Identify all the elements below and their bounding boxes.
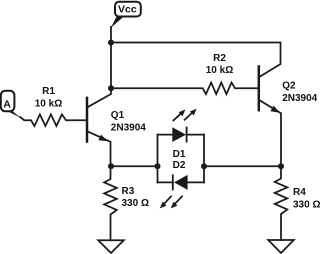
svg-text:10 kΩ: 10 kΩ: [206, 65, 233, 76]
svg-text:R4: R4: [293, 187, 306, 198]
svg-text:Q1: Q1: [111, 110, 125, 121]
svg-text:R3: R3: [122, 186, 135, 197]
svg-text:Vcc: Vcc: [118, 3, 137, 15]
svg-text:Q2: Q2: [282, 80, 296, 91]
svg-text:10 kΩ: 10 kΩ: [35, 99, 62, 110]
svg-text:R1: R1: [42, 86, 55, 97]
svg-text:330 Ω: 330 Ω: [293, 200, 320, 211]
svg-text:A: A: [3, 98, 11, 110]
svg-text:2N3904: 2N3904: [111, 123, 146, 134]
svg-text:330 Ω: 330 Ω: [122, 198, 149, 209]
svg-text:D1: D1: [173, 149, 186, 160]
svg-text:D2: D2: [173, 160, 186, 171]
svg-text:2N3904: 2N3904: [282, 93, 317, 104]
svg-text:R2: R2: [213, 53, 226, 64]
